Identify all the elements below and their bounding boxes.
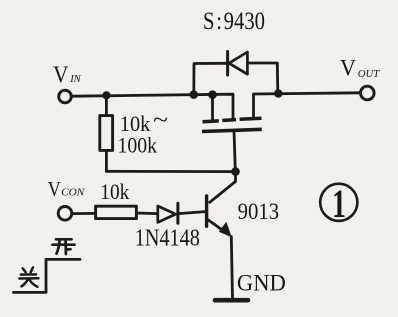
control step waveform xyxy=(14,259,81,292)
diode D2 body diode cathode bar xyxy=(226,52,229,76)
hanzi guan (off) xyxy=(19,267,38,286)
diode D2 body diode triangle xyxy=(229,52,247,74)
wire gate lead xyxy=(234,130,235,171)
wire R1 to gate node xyxy=(106,170,235,173)
wire emitter to GND xyxy=(231,237,232,300)
hanzi kai (on) xyxy=(53,239,75,254)
wire diode loop right xyxy=(248,63,278,93)
node C source stub xyxy=(208,90,217,99)
resistor R1 lead bottom xyxy=(105,150,108,171)
transistor Q1 emitter line xyxy=(208,220,229,235)
terminal VOUT xyxy=(361,86,375,100)
svg-text:OUT: OUT xyxy=(358,69,381,80)
diode D1 cathode bar xyxy=(176,203,179,223)
resistor R1 10k~100k body xyxy=(100,116,113,151)
wire R2 to D1 xyxy=(136,212,157,215)
wire gate node to collector xyxy=(210,172,236,203)
svg-text:100k: 100k xyxy=(118,132,158,157)
wire source stub to bar1 xyxy=(211,95,214,121)
figure number circle 1 xyxy=(320,184,357,221)
node D diode loop right xyxy=(274,89,283,98)
svg-text:1: 1 xyxy=(332,181,346,226)
terminal VCON xyxy=(58,207,72,221)
resistor R2 10k body xyxy=(96,206,137,218)
mosfet U1 channel bar3 (drain contact) xyxy=(240,118,262,119)
node E gate node xyxy=(231,167,240,176)
wire VIN to MOSFET source corner xyxy=(72,94,233,119)
transistor Q1 emitter arrowhead xyxy=(219,222,232,237)
svg-text:V: V xyxy=(48,177,61,201)
terminal VIN xyxy=(59,90,72,103)
mosfet U1 channel bar1 (source contact) xyxy=(203,119,219,123)
svg-text:IN: IN xyxy=(69,73,81,85)
svg-text:10k: 10k xyxy=(100,179,129,204)
transistor Q1 base bar xyxy=(205,196,208,226)
ground bar xyxy=(215,298,248,303)
svg-text:V: V xyxy=(53,62,69,89)
svg-text:S : 9430: S : 9430 xyxy=(203,6,265,35)
diode D1 1N4148 triangle xyxy=(158,206,176,222)
mosfet U1 channel bar2 (body contact) xyxy=(222,118,236,122)
wire diode loop xyxy=(194,63,227,94)
svg-text:CON: CON xyxy=(61,188,85,199)
mosfet U1 gate bar xyxy=(202,129,262,131)
node B diode loop left xyxy=(189,90,198,99)
node A resistor tap xyxy=(102,91,110,99)
svg-text:V: V xyxy=(340,55,356,80)
wire drain bar3 to VOUT xyxy=(254,93,361,119)
wire D1 to base xyxy=(179,212,206,214)
svg-text:GND: GND xyxy=(237,271,286,296)
wire VCON to R2 xyxy=(72,212,95,215)
svg-text:9013: 9013 xyxy=(238,199,280,225)
svg-text:~: ~ xyxy=(153,108,168,134)
svg-text:1N4148: 1N4148 xyxy=(135,224,200,251)
resistor R1 lead top xyxy=(105,95,108,115)
